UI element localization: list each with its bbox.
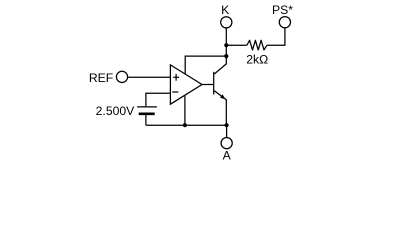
svg-text:A: A [223, 148, 232, 162]
svg-text:K: K [221, 3, 229, 17]
svg-text:2kΩ: 2kΩ [246, 53, 268, 67]
svg-text:PS*: PS* [272, 3, 293, 17]
svg-text:2.500V: 2.500V [96, 104, 135, 118]
svg-text:REF: REF [89, 71, 113, 85]
